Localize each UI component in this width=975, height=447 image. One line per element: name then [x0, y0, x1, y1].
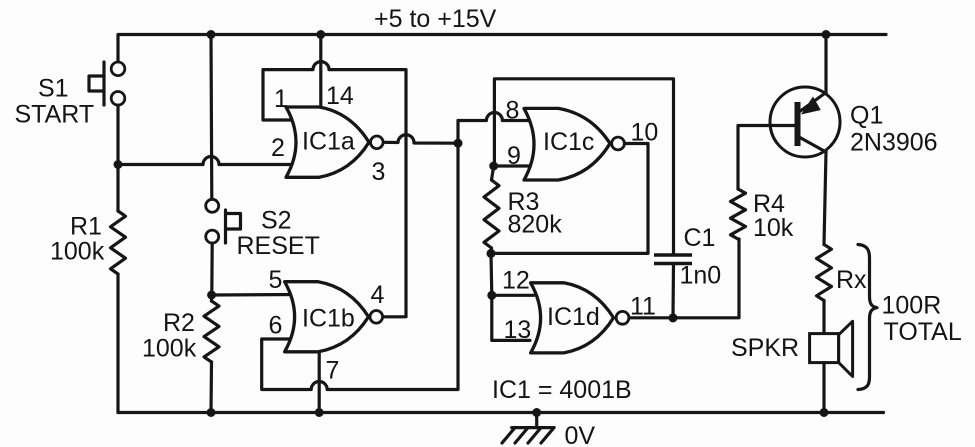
svg-text:5: 5 — [269, 266, 283, 294]
wire R4 top to Q1 base — [738, 126, 795, 190]
junction C1/pin11 wire — [669, 313, 678, 322]
wire node D down to IC1d inputs — [491, 253, 530, 340]
IC1a output bubble pin3 — [371, 136, 384, 149]
svg-text:C1: C1 — [684, 224, 716, 252]
wire node A to R1 — [116, 165, 119, 212]
capacitor C1 1n0 — [654, 255, 692, 318]
wire node C up and to IC1c pin8 (hops box-left vertical) — [458, 113, 530, 144]
svg-text:IC1 = 4001B: IC1 = 4001B — [492, 376, 632, 404]
IC1c output bubble pin10 — [612, 137, 625, 150]
svg-text:RESET: RESET — [237, 232, 320, 260]
S2 actuator bar — [224, 210, 227, 243]
Q1 circle — [770, 87, 840, 157]
Q1 collector diagonal — [799, 137, 826, 152]
ground stem — [535, 413, 538, 428]
C1 bottom plate — [654, 262, 692, 266]
junction rail/S2 — [207, 30, 216, 39]
S1 top contact — [111, 62, 125, 76]
svg-text:7: 7 — [326, 357, 340, 385]
resistor R4 10k — [731, 189, 746, 239]
IC1d output bubble pin11 — [616, 311, 629, 324]
wire R2 top stub — [210, 295, 213, 301]
ground bar — [512, 426, 554, 429]
wire IC1b pin6 loop to node C (hops pin7 vertical) — [262, 143, 458, 389]
svg-text:100k: 100k — [142, 334, 197, 362]
Q1 base bar — [795, 102, 801, 146]
svg-text:TOTAL: TOTAL — [884, 318, 962, 346]
wire R3 top stub — [492, 166, 494, 180]
wire pin12 — [492, 294, 534, 297]
svg-text:IC1b: IC1b — [302, 305, 355, 333]
resistor R1 100k — [111, 211, 126, 274]
S2 top contact — [206, 199, 219, 212]
wire R3 bottom stub — [489, 248, 493, 253]
wire node B to IC1b pin5 — [212, 293, 296, 297]
svg-text:IC1d: IC1d — [547, 303, 600, 331]
wire IC1a pin14 from rail — [319, 35, 322, 115]
svg-text:1: 1 — [274, 85, 288, 113]
svg-text:R1: R1 — [70, 213, 102, 241]
svg-text:2N3906: 2N3906 — [850, 129, 938, 157]
transistor Q1 2N3906 — [770, 87, 840, 157]
svg-text:100R: 100R — [882, 292, 942, 320]
junction ground symbol — [532, 408, 541, 417]
svg-text:8: 8 — [506, 97, 520, 125]
svg-text:10k: 10k — [753, 214, 794, 242]
resistor R3 820k — [484, 180, 499, 248]
svg-text:+5 to +15V: +5 to +15V — [374, 5, 497, 33]
S1 actuator bracket — [89, 76, 104, 91]
wire IC1d pin11 to R4 bottom — [629, 239, 739, 318]
svg-text:IC1a: IC1a — [302, 127, 355, 155]
wire S2 bottom to node B — [210, 243, 214, 296]
Q1 emitter arrow — [801, 97, 821, 115]
power rail +5 to +15V — [118, 35, 886, 63]
ground hatch 4 — [541, 428, 554, 443]
svg-text:2: 2 — [271, 134, 285, 162]
svg-text:SPKR: SPKR — [731, 334, 799, 362]
svg-text:S1: S1 — [38, 75, 69, 103]
ground rail 0V — [118, 411, 884, 414]
wire S1 bottom to node A — [116, 105, 119, 166]
IC1b output bubble pin4 — [370, 311, 383, 324]
junction rail/Q1 — [822, 30, 831, 39]
svg-text:100k: 100k — [50, 238, 105, 266]
node C junction (pin3/pin6 loop/pin8) — [454, 139, 463, 148]
wire IC1a output to node C (hops pin4 vertical) — [383, 135, 458, 143]
junction pin7/ground — [315, 408, 324, 417]
wire node D to IC1c output pin10 — [491, 144, 648, 254]
wire IC1b pin4 loop to IC1a pin1 (top loop) — [263, 62, 406, 317]
switch S1 START — [89, 62, 125, 105]
NOR gate IC1a — [286, 107, 369, 177]
S1 actuator bar — [102, 62, 105, 105]
junction pin9/R3/box — [489, 162, 498, 171]
SPKR box — [810, 334, 839, 363]
brace 100R TOTAL — [858, 245, 877, 390]
svg-text:1n0: 1n0 — [680, 262, 722, 290]
junction speaker/ground — [820, 408, 829, 417]
svg-text:9: 9 — [507, 142, 521, 170]
svg-text:4: 4 — [371, 281, 385, 309]
wire node A to IC1a pin2 (hops S2 drop) — [118, 157, 296, 165]
SPKR cone — [839, 321, 853, 376]
wire pin9 — [494, 164, 532, 167]
svg-text:10: 10 — [631, 119, 659, 147]
IC1c feedback box top (pin9/R3 to C1 top) — [494, 79, 673, 254]
node B junction (S2/R2/pin5) — [207, 291, 216, 300]
svg-text:0V: 0V — [565, 422, 596, 447]
NOR gate IC1d — [531, 283, 614, 353]
svg-text:6: 6 — [269, 311, 283, 339]
wire R2 to ground rail — [209, 362, 213, 413]
S2 actuator bracket — [226, 214, 241, 230]
ground hatch 1 — [502, 428, 515, 443]
junction pin12 — [487, 291, 496, 300]
svg-text:S2: S2 — [261, 207, 292, 235]
wire S2 drop from rail — [209, 35, 213, 200]
node A junction (S1/R1/pin2) — [114, 160, 123, 169]
switch S2 RESET — [206, 199, 241, 243]
wire IC1b pin7 to ground — [318, 348, 321, 413]
svg-text:IC1c: IC1c — [543, 128, 594, 156]
ground symbol — [502, 413, 554, 444]
resistor R2 100k — [204, 301, 219, 362]
junction R2/ground — [207, 408, 216, 417]
wire Q1 collector to Rx — [824, 152, 826, 245]
node D junction (R3/pin10/pins12-13) — [487, 249, 496, 258]
ground hatch 2 — [515, 428, 528, 443]
svg-text:Q1: Q1 — [850, 102, 883, 130]
wire Rx to speaker — [822, 301, 825, 334]
ground hatch 3 — [528, 428, 541, 443]
wire R1 to ground rail — [116, 274, 119, 413]
speaker SPKR — [810, 321, 853, 376]
NOR gate IC1c — [524, 108, 610, 180]
wire Q1 emitter from rail — [824, 35, 827, 94]
NOR gate IC1b — [285, 282, 369, 352]
svg-text:Rx: Rx — [836, 266, 867, 294]
svg-text:3: 3 — [372, 158, 386, 186]
S1 bottom contact — [111, 92, 125, 106]
svg-text:820k: 820k — [508, 210, 563, 238]
C1 top plate — [654, 253, 692, 257]
wire speaker to ground — [822, 363, 825, 413]
S2 bottom contact — [206, 230, 219, 243]
svg-text:14: 14 — [326, 82, 354, 110]
C1 bottom stub — [671, 264, 675, 319]
junction rail/pin14 — [316, 30, 325, 39]
svg-text:START: START — [15, 101, 95, 129]
resistor Rx — [817, 245, 832, 301]
svg-text:12: 12 — [502, 267, 530, 295]
svg-text:R2: R2 — [163, 309, 195, 337]
svg-text:13: 13 — [504, 316, 532, 344]
Q1 emitter diagonal — [799, 93, 826, 113]
